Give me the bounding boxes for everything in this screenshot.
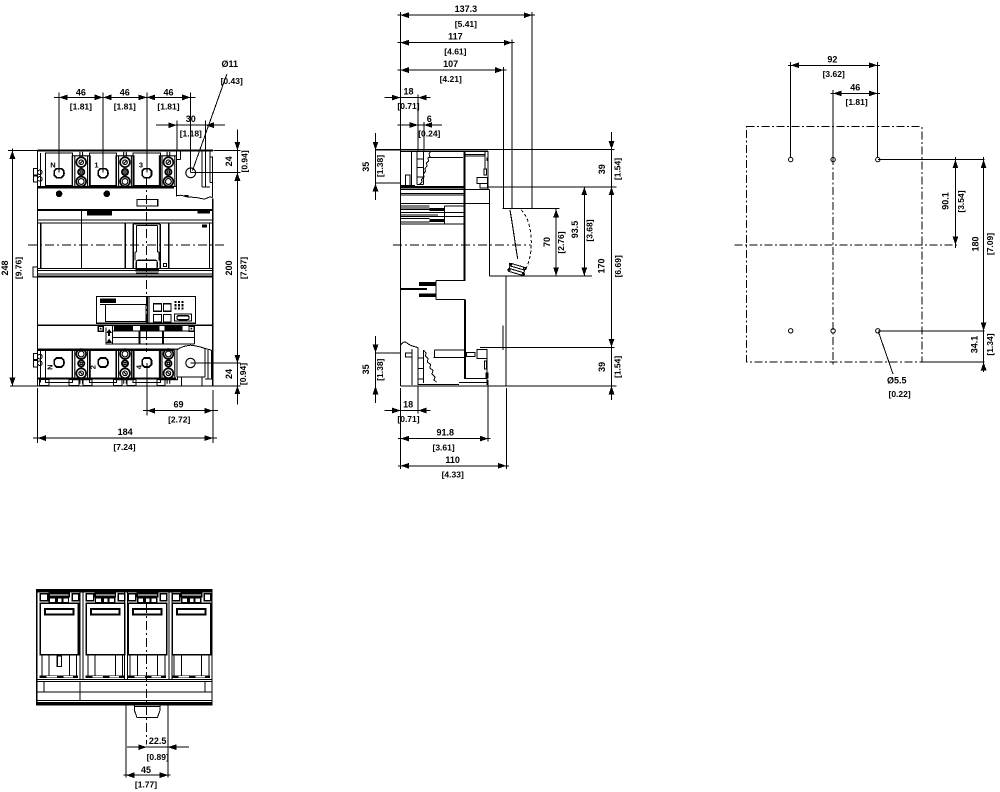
svg-text:Ø5.5: Ø5.5 [887,376,907,386]
small square right of handle [164,264,167,267]
svg-text:46: 46 [850,82,860,92]
side bottom terminal top ext line [480,346,615,348]
dim 92 [788,62,880,157]
dim 91.8 [398,380,491,469]
svg-text:[1.38]: [1.38] [375,155,385,177]
dim 24 top right [191,130,241,186]
cover window right pane [169,223,210,268]
svg-text:248: 248 [0,260,10,275]
svg-text:35: 35 [361,162,371,172]
bottom ear hole [186,358,195,367]
svg-text:1: 1 [94,161,98,170]
mounting holes top row [789,157,881,161]
module divider 1 [80,593,83,680]
svg-text:[7.09]: [7.09] [985,233,995,255]
extension 186.8 right [488,186,616,188]
svg-text:[2.72]: [2.72] [168,414,190,424]
svg-text:[0.71]: [0.71] [397,101,419,111]
black dot right [104,191,111,198]
mid thick band 1 [38,209,213,211]
svg-text:Ø11: Ø11 [222,59,239,69]
dim 46 plan [831,90,881,157]
svg-text:[7.87]: [7.87] [238,257,248,279]
svg-text:22.5: 22.5 [149,736,167,746]
ETU display top line [100,303,106,305]
bottom lug dashed contour [424,351,437,383]
bottom terminal row bottom thick line [38,378,177,380]
bottom terminal blocks and clamps (mirrored) [34,349,178,384]
top clamp module 2 [116,152,134,187]
dim 117 [398,40,515,210]
svg-text:[3.54]: [3.54] [956,190,966,212]
svg-text:69: 69 [173,400,183,410]
handle grip [508,263,526,275]
escutcheon recess [490,190,592,276]
module 1 extra slot [57,656,61,667]
dim 110 [398,388,509,469]
svg-text:24: 24 [224,156,234,166]
svg-text:18: 18 [403,87,413,97]
top clamp module 3 [159,152,177,187]
svg-text:[0.22]: [0.22] [889,389,911,399]
svg-text:[7.24]: [7.24] [113,442,135,452]
svg-text:[1.81]: [1.81] [70,102,92,112]
svg-text:110: 110 [445,455,460,465]
bottom edge extension [922,361,985,363]
top terminal block N [45,153,72,186]
front view bottom base line [10,385,213,387]
top terminal row bottom thick line [38,186,175,188]
rating table end symbols [98,326,194,331]
svg-text:170: 170 [597,258,607,273]
top lug dashed contour [420,152,431,185]
dim 70 [555,209,557,276]
svg-text:91.8: 91.8 [437,428,455,438]
bottom view outer outline [37,590,212,705]
band lines [37,680,212,701]
rating table top line [38,324,213,326]
svg-text:117: 117 [448,32,463,42]
front view vertical centerline [146,178,148,352]
svg-text:2: 2 [89,365,98,369]
svg-text:[3.62]: [3.62] [823,69,845,79]
svg-text:[2.76]: [2.76] [556,231,566,253]
svg-text:24: 24 [224,369,234,379]
handle travel dashed arc [521,210,531,271]
DIN rail notch [401,280,466,379]
tiny 01 mark [202,224,207,227]
handle solid outline [510,210,518,259]
module 3 internals [128,593,167,678]
svg-text:N: N [46,364,55,369]
top terminal assembly [401,151,463,186]
bottom feet [40,380,166,386]
svg-text:[4.21]: [4.21] [440,74,462,84]
mid thick band 2 [38,275,213,277]
ETU connector [174,314,191,321]
svg-text:[1.54]: [1.54] [613,158,623,180]
handle grip [136,260,159,273]
warning glyphs [106,329,112,343]
side view left edge [400,149,402,386]
handle well [133,224,160,268]
shelf line 3 [38,273,213,275]
svg-text:[3.68]: [3.68] [584,219,594,241]
dim 34.1 [981,362,987,370]
dim 90.1 [954,157,956,248]
module 1 internals [39,593,78,678]
side view bottom edge [401,385,617,387]
side terminal row thick line [401,186,465,188]
module divider 2 [125,593,128,680]
top terminal block 3 [133,153,160,186]
ETU middle divider [147,296,149,323]
svg-text:[1.38]: [1.38] [375,358,385,380]
svg-text:180: 180 [971,236,981,251]
dim 200 right [236,185,238,350]
top right mounting ear [177,152,213,200]
front view right edge [212,199,214,387]
cover window left pane [41,211,126,268]
module divider 3 [169,593,172,680]
dim 22.5 [127,746,189,748]
ear hole [186,168,196,178]
siemens label [87,211,112,216]
dim 35 bottom left [376,336,401,403]
rating table grid [105,325,194,344]
bottom view centerline [146,604,148,745]
ETU trip unit box [96,296,195,323]
svg-text:[4.61]: [4.61] [444,46,466,56]
side view top extension line [376,148,615,150]
svg-text:[1.54]: [1.54] [613,356,623,378]
svg-text:30: 30 [186,114,196,124]
bottom terminal assembly side [401,342,488,385]
dim 69 bottom [143,363,218,443]
plate horizontal centerline [735,244,960,246]
dim 6 [398,122,443,151]
svg-text:137.3: 137.3 [455,4,478,14]
svg-text:[1.18]: [1.18] [180,129,202,139]
front plate top [502,208,559,210]
svg-text:34.1: 34.1 [969,336,979,354]
window bottom shelf [38,267,213,269]
module 4 internals [172,593,211,678]
svg-text:6: 6 [427,114,432,124]
dim chain 46/46/46 top [54,93,196,173]
svg-text:N: N [50,161,55,170]
ETU title block [100,299,116,303]
svg-text:[1.81]: [1.81] [114,102,136,112]
svg-text:45: 45 [141,765,151,775]
dim 107 [398,67,507,209]
module 2 internals [86,593,125,678]
svg-text:92: 92 [827,54,837,64]
bottom right mounting ear [177,345,212,386]
dim 180 [983,157,985,372]
top terminal block 1 [89,153,116,186]
svg-text:[0.24]: [0.24] [418,129,440,139]
dim 35 top left [376,133,401,200]
dim 24 bottom right [191,350,241,405]
dim 45 [124,774,171,776]
hole row extension lines [878,159,985,161]
side front thick vertical [464,151,466,281]
svg-text:107: 107 [443,59,458,69]
svg-text:[3.61]: [3.61] [432,442,454,452]
svg-text:46: 46 [163,87,173,97]
svg-text:[6.69]: [6.69] [613,255,623,277]
svg-text:39: 39 [597,362,607,372]
leader line [193,74,227,171]
ETU display [105,304,146,321]
svg-text:[0.89]: [0.89] [147,752,169,762]
dim 39/170/39 right [611,132,613,400]
svg-text:46: 46 [76,87,86,97]
front view left edge [37,151,39,387]
svg-text:35: 35 [361,364,371,374]
dim 30 top [156,120,225,187]
svg-text:[9.76]: [9.76] [14,257,24,279]
dim 18 top [384,95,430,152]
svg-text:[1.81]: [1.81] [157,102,179,112]
DIN rail foot [126,705,168,778]
svg-text:93.5: 93.5 [570,221,580,239]
dim 93.5 [583,187,585,276]
svg-text:[5.41]: [5.41] [455,19,477,29]
push-to-trip rectangle [137,200,158,206]
bottom terminal row top thick line [38,349,175,351]
side view centerline [393,244,531,246]
svg-text:[0.94]: [0.94] [238,363,248,385]
svg-text:184: 184 [118,427,133,437]
mounting holes bottom row [789,329,881,333]
svg-text:[1.81]: [1.81] [845,97,867,107]
diameter 5.5 callout [879,332,894,374]
svg-text:3: 3 [139,161,143,170]
dim 248 left [8,149,38,387]
inner panel stub [502,325,504,350]
plate vertical centerline [832,157,834,366]
svg-text:[1.34]: [1.34] [985,333,995,355]
small type text right [198,211,210,214]
svg-text:[0.94]: [0.94] [239,150,249,172]
front view top edge [38,149,214,151]
svg-text:[4.33]: [4.33] [442,470,464,480]
side mid bands [401,189,490,224]
top left edge detail [34,153,43,186]
shelf line 2 [38,269,213,271]
svg-text:200: 200 [224,260,234,275]
dim 18 bottom [384,387,430,414]
top front mech [401,151,489,189]
ETU keypad [153,304,171,322]
svg-text:18: 18 [403,400,413,410]
mid line 2 [38,219,213,221]
black dot left [56,191,63,198]
svg-text:46: 46 [120,87,130,97]
front view horizontal centerline [28,244,227,246]
svg-text:90.1: 90.1 [941,192,951,210]
svg-text:[1.77]: [1.77] [135,779,157,789]
top clamp module 1 [72,152,90,187]
mid line 3 [38,222,213,224]
ETU led block [174,301,183,310]
lower front face [505,276,507,386]
rating table hatched row [114,326,182,331]
plate outline [747,127,922,362]
dim 137.3 [398,12,536,209]
svg-text:39: 39 [597,164,607,174]
svg-text:70: 70 [542,237,552,247]
dim 184 bottom [33,388,217,443]
left side tab [33,267,38,277]
side view body top edge [401,150,459,152]
